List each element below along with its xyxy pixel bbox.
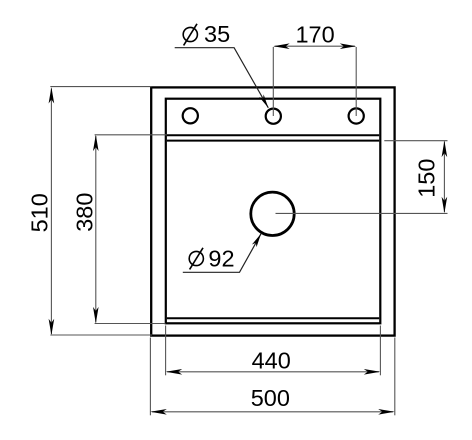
arrow 150 top (442, 141, 448, 158)
arrow 440 left (166, 369, 183, 375)
faucet hole right (349, 108, 364, 123)
extension line 510 top (50, 86, 151, 88)
svg-text:510: 510 (27, 193, 53, 232)
arrow 170 right (340, 43, 357, 49)
bowl top edge lower line (167, 140, 379, 142)
extension line 170 left (272, 47, 274, 116)
sink outer outline (151, 87, 394, 335)
sink inner rim (166, 99, 380, 324)
leader line d35 (175, 48, 269, 108)
faucet hole middle (266, 109, 281, 124)
diameter symbol of d35 (183, 24, 197, 46)
dimension line 440 (167, 371, 379, 373)
extension line 170 right (355, 47, 357, 116)
arrow 380 top (93, 135, 99, 152)
extension line 440 right (379, 326, 381, 376)
arrow 500 left (150, 409, 167, 415)
svg-text:92: 92 (208, 246, 234, 272)
leader arrow d35 (259, 94, 268, 107)
arrow 510 bottom (49, 319, 55, 336)
extension line 500 left (149, 338, 151, 416)
arrow 500 right (378, 409, 395, 415)
svg-text:170: 170 (295, 22, 334, 48)
extension line 500 right (394, 338, 396, 416)
arrow 380 bottom (93, 307, 99, 324)
arrow 440 right (364, 369, 381, 375)
dimension line 500 (152, 411, 393, 413)
extension line 150 top (384, 140, 447, 142)
diameter symbol of d92 (189, 248, 203, 270)
drain circle (251, 192, 294, 235)
faucet hole left (183, 108, 198, 123)
svg-text:500: 500 (251, 385, 290, 411)
arrow 170 left (273, 43, 290, 49)
extension line 380 bottom (95, 323, 166, 325)
leader arrow d92 (252, 234, 261, 248)
svg-text:35: 35 (204, 21, 230, 47)
dimension line 510 (50, 89, 52, 335)
extension line 510 bottom (50, 334, 152, 336)
arrow 150 bottom (442, 197, 448, 214)
bowl bottom inner line (167, 317, 379, 319)
bowl top edge upper line (167, 134, 379, 136)
svg-text:440: 440 (252, 347, 291, 373)
extension line 150 bottom (276, 212, 448, 214)
extension line 440 left (165, 326, 167, 376)
dimension line 170 (275, 45, 356, 47)
arrow 510 top (49, 87, 55, 104)
svg-text:380: 380 (71, 193, 97, 232)
extension line 380 top (95, 134, 167, 136)
leader line d92 (183, 234, 261, 273)
svg-text:150: 150 (413, 159, 439, 198)
dimension line 150 (443, 142, 445, 213)
dimension line 380 (95, 136, 97, 323)
